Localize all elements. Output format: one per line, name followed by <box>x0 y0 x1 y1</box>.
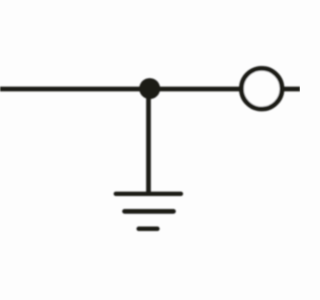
wire: vertical drop from junction to ground <box>146 89 151 194</box>
wire: main horizontal line from left edge to terminal circle <box>0 87 242 92</box>
ground <box>116 194 181 229</box>
wire: short segment from terminal circle to right edge <box>282 87 300 92</box>
node A: junction dot <box>139 78 160 99</box>
terminal T1: open circle <box>241 68 282 109</box>
